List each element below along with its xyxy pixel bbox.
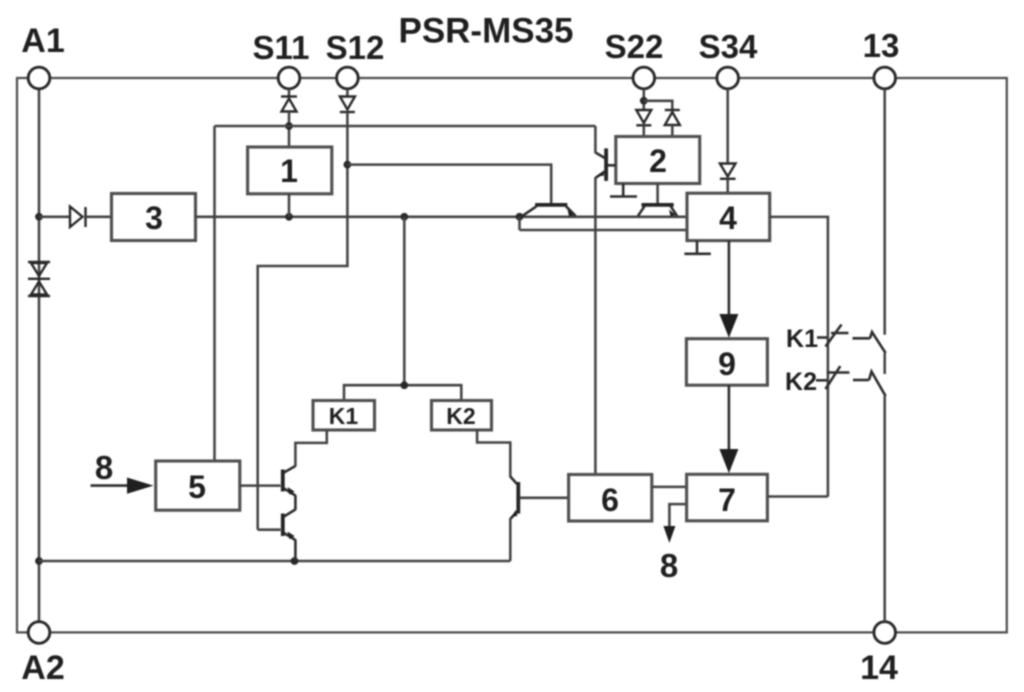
wire bottom common (y=561) xyxy=(39,560,510,563)
arrow block 9 to block 7 xyxy=(728,385,731,453)
junction dot S22 branch xyxy=(640,97,648,105)
junction dot mid vertical on main wire xyxy=(400,213,408,221)
terminal circle S11 xyxy=(278,67,300,89)
relay coil K1 xyxy=(313,401,375,431)
transistor T2 (S12 controlled) xyxy=(523,205,576,216)
svg-text:K2: K2 xyxy=(785,368,817,396)
wire T6 base to block 6 xyxy=(520,497,569,500)
wire diodes to block 2 xyxy=(643,125,646,136)
wire K2 coil to T6 collector xyxy=(477,430,510,477)
junction dot emitter pair on bottom wire xyxy=(291,557,299,565)
wire T4 emitter to T5 collector xyxy=(294,495,297,510)
arrow block 4 to block 9 xyxy=(728,241,731,318)
junction dot T2 foot on main wire xyxy=(516,213,524,221)
diode S12 (pointing down) xyxy=(340,97,355,113)
junction dot A1-diode branch xyxy=(35,213,43,221)
svg-text:S11: S11 xyxy=(253,29,310,66)
diode S11 (pointing up) xyxy=(281,97,297,112)
transistor T3 (below block 2) xyxy=(638,205,677,216)
wire T1 emitter down to block 6 top xyxy=(594,178,597,475)
block 2 xyxy=(616,137,700,184)
wire T1 collector to upper wire xyxy=(594,126,597,153)
block 9 xyxy=(686,339,767,386)
svg-text:1: 1 xyxy=(280,153,298,189)
relay coil K2 xyxy=(432,401,492,431)
svg-text:A1: A1 xyxy=(21,22,64,60)
svg-text:6: 6 xyxy=(601,482,619,518)
terminal circle S34 xyxy=(717,67,739,89)
wire A1 vertical xyxy=(38,89,41,622)
wire block 1 to main wire xyxy=(288,194,291,217)
svg-text:K2: K2 xyxy=(446,403,475,429)
wire S12 terminal to diode xyxy=(346,89,349,97)
wire block 7 output 8 branch xyxy=(669,504,686,528)
diode S22 left (pointing down) xyxy=(636,110,651,125)
wire block 4 output right xyxy=(770,217,828,497)
terminal circle A2 xyxy=(28,622,50,644)
block 3 xyxy=(112,194,196,241)
K2 contact blade xyxy=(869,372,886,397)
series diode before block 3 xyxy=(70,207,86,228)
wire S22 branch to right diode xyxy=(644,101,673,110)
svg-text:8: 8 xyxy=(660,547,678,584)
K1 actuator dashes xyxy=(817,333,870,338)
wire mid vertical to relay coils xyxy=(403,217,406,385)
terminal circle S12 xyxy=(337,67,359,89)
junction dot S11 on upper wire xyxy=(285,122,293,130)
wire block 2 bottom to T3 base xyxy=(656,184,659,204)
block 6 xyxy=(569,475,652,522)
junction dot S11 line on main wire xyxy=(285,213,293,221)
svg-text:14: 14 xyxy=(860,649,898,687)
wire upper horizontal (y=126) xyxy=(215,125,596,128)
wire main horizontal (y=216.8) block3 to block4 xyxy=(196,216,688,219)
diode S22 right (pointing up) xyxy=(665,110,680,125)
wire block 6 to block 7 xyxy=(652,486,687,489)
terminal circle 14 xyxy=(874,622,896,644)
wire left vertical to block 5 xyxy=(213,126,216,461)
K2 forced-guide slash xyxy=(826,366,841,389)
wire T2 foot branch down xyxy=(518,217,521,230)
arrow down 8 (from block 7) xyxy=(663,526,675,543)
frame border xyxy=(17,78,1007,632)
diode S34 (pointing down) xyxy=(720,164,736,179)
wire T5 emitter to bottom wire xyxy=(294,540,297,562)
terminal circle A1 xyxy=(28,67,50,89)
wire coil top rail xyxy=(344,385,461,402)
svg-text:7: 7 xyxy=(718,482,736,518)
wire K1 coil to T4 collector xyxy=(295,430,326,467)
block 4 xyxy=(687,193,770,240)
svg-text:13: 13 xyxy=(863,27,900,64)
wire T6 emitter down to bottom wire xyxy=(509,519,512,562)
junction dot coil rail xyxy=(400,381,408,389)
terminal circle 13 xyxy=(874,67,896,89)
wire block 5 output to T4 base xyxy=(240,484,281,487)
wire S12 branch to T2 base xyxy=(347,165,551,203)
block 7 xyxy=(687,474,768,521)
svg-text:2: 2 xyxy=(649,143,667,179)
svg-text:S34: S34 xyxy=(699,28,758,65)
transistor T4 (upper, coil K1 driver) xyxy=(283,466,296,496)
terminal circle S22 xyxy=(633,67,655,89)
svg-text:PSR-MS35: PSR-MS35 xyxy=(398,12,573,51)
wire K2 contact to 14 terminal xyxy=(883,396,886,622)
wire lower horizontal (y=230) to block 4 xyxy=(520,229,688,232)
svg-text:4: 4 xyxy=(719,200,737,236)
svg-text:9: 9 xyxy=(718,346,736,382)
K1 contact blade xyxy=(870,332,886,353)
wire A1 to series diode xyxy=(39,216,70,219)
wire between contacts xyxy=(883,353,886,374)
ground under block 2 xyxy=(610,184,637,197)
svg-text:3: 3 xyxy=(145,200,163,236)
junction dot A1-bottom wire xyxy=(35,557,43,565)
svg-text:S12: S12 xyxy=(326,29,385,66)
junction dot S12 branch xyxy=(344,161,352,169)
wire S11 diode to block 1 xyxy=(288,112,291,148)
wire S12 vertical down with jog xyxy=(258,112,348,530)
svg-text:8: 8 xyxy=(95,449,113,486)
wire 13 terminal down to K1 contact xyxy=(883,89,886,335)
svg-text:5: 5 xyxy=(188,469,206,505)
svg-text:K1: K1 xyxy=(786,325,818,353)
block 1 xyxy=(248,147,332,194)
input arrow 8 to block 5 xyxy=(91,484,131,487)
transistor T1 (left of block 2) xyxy=(595,148,615,181)
transistor T5 (lower, cascade) xyxy=(283,510,296,541)
block 5 xyxy=(156,461,240,510)
svg-text:S22: S22 xyxy=(605,28,664,65)
wire block 7 output right xyxy=(767,495,828,498)
K2 actuator dashes xyxy=(816,373,869,381)
wire S34 terminal down to diode xyxy=(726,89,729,164)
wire S11 terminal to diode xyxy=(288,89,291,97)
transistor T6 (near block 6) xyxy=(510,477,518,520)
wire S22 terminal down xyxy=(643,89,646,111)
svg-text:A2: A2 xyxy=(21,649,64,687)
K1 forced-guide slash xyxy=(826,325,842,347)
ground under block 4 xyxy=(684,241,710,254)
wire diode to block 3 xyxy=(86,216,112,219)
svg-text:K1: K1 xyxy=(329,403,359,429)
suppressor diode on A1 line xyxy=(28,262,50,296)
wire diode S34 to block 4 xyxy=(726,179,729,193)
wire S12 jog to T5 base xyxy=(258,528,281,531)
